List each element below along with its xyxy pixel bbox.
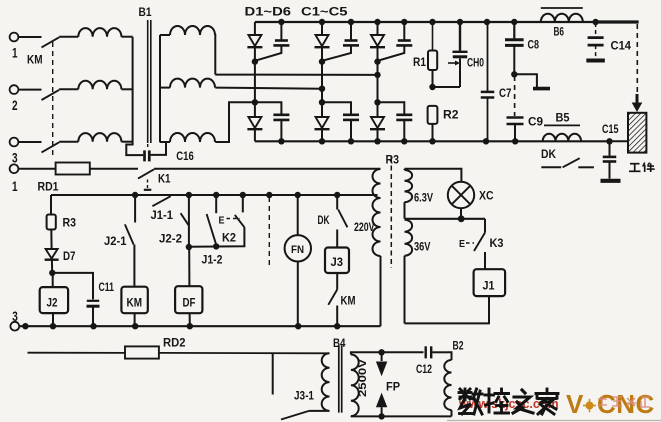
node bottom bus C11 (90, 323, 96, 329)
diode D3 (top) (377, 22, 379, 35)
contact J2-1 (134, 195, 136, 223)
svg-text:DK: DK (318, 215, 330, 227)
fuse RD1 (56, 163, 90, 175)
node bus-cap col1 (278, 19, 284, 25)
terminal 3 (control) (10, 322, 19, 331)
node bottom bus FN (295, 323, 301, 329)
relay coil J2 (40, 287, 68, 313)
capacitor C12 (425, 346, 427, 358)
svg-text:220V: 220V (354, 222, 375, 234)
svg-text:K3: K3 (490, 238, 504, 250)
fan motor FN (297, 195, 299, 235)
watermark glyph 控 (485, 389, 509, 413)
svg-text:RD1: RD1 (38, 182, 60, 194)
node top bus R1 (429, 19, 435, 25)
wire bus to R3 (50, 195, 52, 215)
node bottom bus C7 (483, 138, 489, 144)
node R1/R2/CH0 junction (429, 84, 435, 90)
svg-text:J3-1: J3-1 (294, 391, 315, 403)
node bus K2 left (213, 192, 219, 198)
svg-text:J2-1: J2-1 (104, 236, 127, 248)
svg-text:K1: K1 (158, 174, 171, 186)
B1 primary winding 1 (78, 28, 121, 37)
node K2 bottom (213, 243, 219, 249)
node bottom bus col2 cap (348, 138, 354, 144)
watermark glyph 数 (459, 389, 482, 414)
svg-text:CH0: CH0 (467, 58, 484, 70)
capacitor C15 (609, 141, 611, 156)
node bottom bus J3 branch (334, 323, 340, 329)
node bottom bus D5 (319, 138, 325, 144)
wire secondary 1 right lead (214, 35, 216, 75)
capacitor C (top) col1 (280, 22, 282, 40)
wire KM contact to B1 primary 3 (59, 141, 78, 143)
lamp XC (448, 182, 474, 208)
capacitor C16 (143, 150, 146, 161)
node C8/C9 junction (511, 71, 517, 77)
svg-text:RD2: RD2 (163, 338, 186, 350)
node bottom bus J2 (50, 323, 56, 329)
wire C16 to secondary bus (151, 142, 166, 155)
phase line 2 (to D2 column) (215, 88, 322, 89)
svg-text:R2: R2 (443, 110, 459, 122)
ground (C8) (533, 87, 550, 91)
capacitor C11 (electrolytic) (87, 300, 99, 302)
bottom control bus (18, 325, 380, 327)
svg-text:XC: XC (479, 191, 494, 203)
KM linkage dash line (52, 42, 54, 156)
wire secondary bus to winding 1 (160, 34, 170, 36)
node phase jog col2 (319, 99, 325, 105)
svg-text:V: V (566, 389, 584, 419)
node bottom bus col1 cap (278, 138, 284, 144)
svg-text:C8: C8 (528, 40, 540, 52)
svg-text:C16: C16 (176, 151, 194, 163)
svg-text:R3: R3 (386, 155, 400, 167)
wire lamp to tap (460, 208, 462, 219)
inductor B5 core bar (544, 124, 580, 126)
svg-text:3: 3 (12, 151, 18, 166)
electrode lead dashed (636, 24, 638, 97)
svg-text:FP: FP (386, 382, 400, 394)
node bottom bus KM (132, 323, 138, 329)
svg-text:C14: C14 (611, 41, 632, 53)
svg-text:R3: R3 (63, 218, 77, 230)
B3 secondary 36V (405, 220, 413, 256)
node FP bottom (378, 413, 384, 419)
svg-text:FN: FN (291, 244, 304, 256)
tap line 6.3V/36V (405, 218, 486, 220)
relay coil DF (175, 286, 202, 313)
svg-text:C15: C15 (602, 124, 619, 136)
spark gap FP (381, 352, 383, 361)
B1 secondary winding 1 (170, 26, 215, 35)
node phase jog col1 (252, 99, 258, 105)
node top bus C8 (511, 19, 517, 25)
inductor B5 (543, 134, 581, 142)
contact J2-2 (181, 213, 189, 226)
resistor R3 (47, 215, 56, 230)
svg-text:C1~C5: C1~C5 (301, 7, 348, 19)
node top bus D2 (319, 19, 325, 25)
svg-text:DK: DK (541, 149, 557, 161)
watermark glyph 家 (536, 389, 558, 414)
fuse RD2 (125, 346, 159, 358)
svg-text:J3: J3 (331, 257, 344, 269)
svg-text:36V: 36V (414, 242, 431, 254)
switch DK (output) (541, 166, 561, 168)
B3 secondary 6.3V (404, 169, 406, 170)
transformer B3 core (390, 157, 392, 268)
svg-text:CNC: CNC (597, 389, 655, 419)
capacitor C (bottom) col2 (322, 102, 351, 114)
svg-text:1: 1 (12, 179, 18, 194)
wire C8 to ground (514, 74, 537, 87)
node FP top (378, 349, 384, 355)
terminal 3 (3-phase input) (10, 138, 19, 147)
label 工件 (630, 163, 640, 165)
node bus dash link (266, 192, 272, 198)
diode D7 (46, 249, 58, 259)
svg-text:B1: B1 (139, 7, 153, 19)
node bus FN (295, 192, 301, 198)
wire 6.3V top to lamp (405, 169, 462, 182)
wire B1 primary 1 to primary bus (121, 36, 132, 38)
wire B4 secondary bottom (350, 415, 352, 417)
diode D6 (bottom) (371, 117, 384, 128)
terminal 1 (control) (10, 164, 19, 173)
wire RD2 line (28, 352, 126, 354)
svg-text:1: 1 (12, 46, 18, 61)
svg-text:2: 2 (12, 98, 18, 113)
svg-text:2500V: 2500V (357, 358, 369, 397)
bottom faint line (447, 420, 661, 422)
svg-text:6.3V: 6.3V (414, 193, 433, 205)
dc top bus (+) (255, 21, 639, 23)
B1 primary winding 2 (78, 81, 121, 90)
workpiece (hatched) (628, 113, 646, 153)
resistor R2 (428, 106, 438, 124)
wire bus to DF node (188, 195, 190, 247)
wire KM contact to B1 primary 2 (59, 88, 78, 90)
ground (C14) (586, 59, 605, 63)
B4 primary (322, 353, 330, 411)
svg-text:J1-1: J1-1 (151, 210, 174, 222)
svg-text:J2-2: J2-2 (159, 234, 182, 246)
capacitor C (bottom) col3 (378, 102, 405, 114)
wire secondary bus to winding 2 (160, 87, 170, 89)
B1 secondary winding 3 (170, 133, 215, 142)
node bottom bus col3 cap (401, 138, 407, 144)
linkage dash-dot line (268, 197, 270, 268)
contactor KM main contact 3 (42, 142, 60, 152)
node K2 bottom line left (186, 244, 192, 250)
capacitor C8 (513, 22, 515, 39)
svg-text:C9: C9 (528, 117, 543, 129)
svg-text:E: E (459, 238, 465, 250)
wire to C11 (52, 273, 93, 300)
electrode arrow (636, 94, 639, 103)
node D7/J2/C11 (49, 270, 55, 276)
node top bus C7 (484, 19, 490, 25)
watermark glyph 之 (513, 390, 533, 413)
diode D1 (top) (254, 22, 256, 35)
wire DF node to coil (188, 247, 190, 286)
switch DK (control) (336, 195, 338, 210)
node lamp tap (458, 215, 465, 222)
button K2 pole 2 (242, 195, 244, 212)
svg-text:J1-2: J1-2 (202, 255, 223, 267)
svg-text:D7: D7 (63, 251, 76, 263)
terminal 1 (3-phase input) (10, 33, 19, 42)
svg-text:KM: KM (127, 298, 143, 310)
node phase jog col3 (374, 99, 380, 105)
phase line 1 (to D3 column) (215, 74, 377, 76)
svg-text:C11: C11 (99, 282, 115, 294)
capacitor C (bottom) col1 (255, 102, 282, 114)
wire terminal 3 to KM contact (19, 141, 42, 143)
capacitor C (top) col3 (403, 22, 405, 40)
wire secondary 3 right lead (215, 102, 255, 142)
column 2 vertical wire (321, 62, 323, 117)
control bus (51, 194, 378, 196)
wire C15 node to workpiece (610, 140, 629, 142)
dc bottom bus (255, 140, 610, 142)
B1 primary right bus (126, 37, 143, 155)
relay coil J3 (325, 248, 349, 274)
capacitor C7 (487, 22, 489, 91)
transformer B1 core (147, 20, 149, 143)
svg-text:B2: B2 (453, 341, 464, 353)
discharge gap CH0 (459, 22, 461, 51)
node bus J2-1 (132, 192, 138, 198)
node bottom bus R2 (429, 138, 435, 144)
contactor coil KM (121, 287, 147, 314)
switch K1 (138, 169, 154, 178)
svg-text:3: 3 (12, 309, 18, 324)
node top bus CH0 (457, 19, 463, 25)
svg-text:KM: KM (27, 55, 43, 67)
B1 primary winding 3 (78, 133, 121, 142)
capacitor C (top) col2 (350, 22, 352, 40)
node bottom bus D6 (374, 138, 380, 144)
capacitor C14 (595, 23, 597, 37)
node bottom bus C9 (512, 138, 518, 144)
node bottom bus left (22, 323, 28, 329)
node bus-cap col3 (401, 19, 407, 25)
contactor KM main contact 2 (42, 90, 60, 100)
wire J1 to 36V return (405, 296, 490, 323)
node bus DF branch (186, 192, 192, 198)
node diode D1 cathode (252, 58, 258, 64)
wire B1 primary 3 to primary bus (121, 141, 132, 143)
diode D5 (bottom) (316, 117, 329, 128)
contact J1-1 (152, 196, 170, 206)
svg-text:C12: C12 (416, 364, 432, 376)
node top bus after B6 (592, 19, 598, 25)
column 3 vertical wire (377, 62, 379, 117)
node diode D3 cathode (374, 58, 380, 64)
contactor KM main contact 1 (42, 37, 60, 47)
contact J3-1 (272, 353, 274, 395)
svg-text:C7: C7 (499, 88, 512, 100)
watermark sun glyph (586, 402, 594, 410)
contact K3 (484, 219, 486, 233)
B1 secondary winding 2 (170, 79, 215, 88)
node C15 (606, 138, 612, 144)
diode D4 (bottom) (248, 117, 261, 128)
svg-text:J2: J2 (47, 298, 58, 310)
B1 secondary left bus (159, 35, 161, 142)
svg-text:K2: K2 (222, 233, 236, 245)
K1 linkage (147, 180, 149, 189)
column 1 vertical wire (254, 62, 256, 117)
svg-text:DF: DF (183, 298, 196, 310)
wire terminal 2 to KM contact (19, 89, 42, 91)
wire secondary bus to winding 3 (160, 141, 170, 143)
B3 primary 220V (373, 169, 381, 256)
inductor B6 (541, 14, 583, 22)
node diode D2 cathode (319, 58, 325, 64)
node bottom bus DF (187, 323, 193, 329)
svg-text:J1: J1 (483, 281, 496, 293)
transformer B4 core (338, 345, 340, 412)
node top bus D3 (374, 19, 380, 25)
watermark faint red overlay (598, 396, 650, 407)
svg-text:R1: R1 (413, 57, 427, 69)
wire KM contact to B1 primary 1 (59, 36, 78, 38)
node phase1-col3 (374, 72, 380, 78)
node phase2-col2 (319, 86, 325, 92)
resistor R1 (432, 22, 434, 51)
node bus-cap col2 (348, 19, 354, 25)
relay coil J1 (474, 269, 506, 296)
wire terminal to RD1 (19, 168, 56, 170)
svg-text:E: E (219, 215, 225, 227)
diode D2 (top) (321, 22, 323, 35)
ground (C15) (601, 179, 621, 183)
wire B1 primary 2 to primary bus (121, 88, 132, 90)
svg-text:D1~D6: D1~D6 (245, 7, 292, 19)
wire terminal 1 to KM contact (19, 36, 42, 38)
svg-text:B5: B5 (556, 113, 571, 125)
terminal 2 (3-phase input) (10, 85, 19, 94)
button K2 pole 1 (215, 195, 217, 213)
node bus DK (334, 192, 340, 198)
wire B4 secondary top (351, 352, 424, 354)
inductor B6 core bar (541, 7, 583, 9)
capacitor C9 (514, 76, 516, 116)
wire B6 to electrode (thick) (596, 20, 639, 23)
svg-text:B6: B6 (554, 27, 565, 39)
node bus K2 right (240, 192, 246, 198)
contact KM (aux) (336, 273, 338, 290)
svg-text:KM: KM (341, 296, 356, 308)
B4 secondary 2500V (351, 355, 359, 417)
